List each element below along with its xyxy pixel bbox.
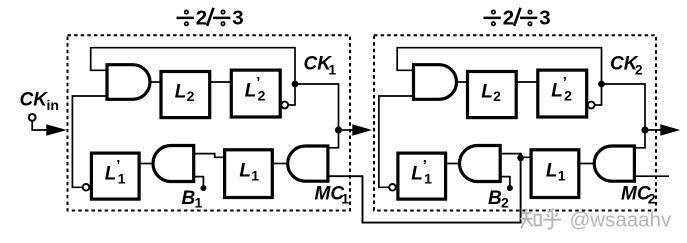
- latch L1' (cell 1): [91, 153, 139, 199]
- svg-text:1: 1: [195, 195, 203, 211]
- wire node CK1 to output junction: [295, 84, 339, 130]
- junction dot on L1 output node (cell 2): [517, 154, 524, 161]
- label CK2: [610, 53, 643, 77]
- latch L2' (cell 1): [231, 70, 280, 117]
- AND gate G2a (top, cell 2): [414, 65, 457, 100]
- svg-text:1: 1: [118, 171, 126, 187]
- wire clock rail (cell 2): [379, 96, 414, 187]
- svg-text:2: 2: [564, 88, 572, 104]
- divider cell 2 dashed border: [374, 35, 656, 210]
- latch L2 (cell 2): [468, 72, 517, 118]
- label L1 (cell 2): [546, 161, 566, 184]
- AND gate G2b (bottom middle, cell 2): [460, 146, 501, 182]
- label divide-by-2/divide-by-3 (cell 2): [484, 7, 551, 30]
- latch L1' (cell 2): [398, 153, 446, 199]
- svg-text:L: L: [411, 164, 423, 185]
- latch L2 (cell 1): [161, 72, 210, 118]
- AND gate G1c (bottom right, cell 1): [288, 146, 328, 181]
- svg-text:1: 1: [328, 62, 336, 78]
- arrowhead cell 1 output into cell 2: [352, 124, 372, 135]
- label L2 (cell 2): [481, 81, 501, 104]
- wire clock rail (cell 1): [72, 96, 107, 187]
- inverted output bubble of L2' (cell 2): [588, 102, 595, 109]
- svg-text:2: 2: [258, 88, 266, 104]
- wire L1' to gate G2b (cell 2): [446, 163, 460, 165]
- label L1' (cell 2): [411, 157, 432, 187]
- svg-text:1: 1: [251, 168, 259, 184]
- svg-text:L: L: [551, 81, 563, 102]
- wire feedback CK2 to AND gate (cell 2): [397, 48, 601, 84]
- wire L1 to gate G1c (cell 1): [272, 163, 287, 165]
- output junction dot (cell 1): [335, 126, 342, 133]
- divider cell 1 dashed border: [68, 35, 351, 210]
- label L1 (cell 1): [239, 161, 259, 184]
- svg-text:MC: MC: [621, 184, 651, 205]
- svg-text:MC: MC: [315, 184, 345, 205]
- watermark zhihu @wsaaahv: [520, 209, 672, 232]
- inverted clock bubble of L1' (cell 1): [83, 184, 90, 191]
- terminal B2 dot: [507, 185, 513, 191]
- wire node CK2 to output junction: [602, 84, 646, 130]
- svg-text:L: L: [546, 161, 558, 182]
- wire output of cell 1 to cell 2: [339, 129, 354, 131]
- label L1' (cell 1): [105, 157, 126, 187]
- wire L2' bubble to node CK1: [288, 84, 295, 105]
- svg-text:CK: CK: [20, 90, 49, 111]
- svg-text:1: 1: [424, 171, 432, 187]
- AND gate G1a (top, cell 1): [107, 65, 150, 100]
- svg-text:2: 2: [187, 88, 195, 104]
- svg-text:L: L: [245, 81, 257, 102]
- inverted clock bubble of L1' (cell 2): [389, 184, 396, 191]
- svg-text:3: 3: [232, 7, 243, 30]
- svg-text:2: 2: [493, 88, 501, 104]
- latch L2' (cell 2): [538, 70, 587, 117]
- svg-text:2: 2: [648, 191, 656, 207]
- svg-text:1: 1: [341, 191, 349, 207]
- svg-text:B: B: [182, 188, 196, 209]
- svg-text:3: 3: [539, 7, 550, 30]
- label L2' (cell 1): [245, 74, 266, 104]
- wire G2b input from L1 (cell 2): [500, 154, 531, 158]
- svg-text:1: 1: [558, 168, 566, 184]
- inverted output bubble of L2' (cell 1): [281, 102, 288, 109]
- label MC2: [621, 184, 656, 207]
- arrowhead cell 2 output: [660, 124, 680, 135]
- svg-text:B: B: [488, 188, 502, 209]
- label MC1: [315, 184, 350, 207]
- label L2 (cell 1): [175, 81, 195, 104]
- latch L1 (cell 1): [225, 150, 273, 198]
- wire G2b input from B2: [500, 177, 510, 186]
- AND gate G1b (bottom middle, cell 1): [153, 146, 194, 182]
- wire CKin terminal to arrow: [32, 121, 47, 130]
- label L2' (cell 2): [551, 74, 572, 104]
- node CK1 junction dot: [292, 81, 299, 88]
- svg-text:L: L: [105, 164, 117, 185]
- svg-text:L: L: [481, 81, 493, 102]
- wire G1c input from output junction (cell 1): [328, 130, 339, 148]
- wire output of cell 2: [645, 129, 667, 131]
- wire G1b input from L1 (cell 1): [194, 154, 225, 158]
- label CKin: [20, 90, 59, 114]
- wire L1' to gate G1b (cell 1): [139, 163, 153, 165]
- wire G2c input from output junction (cell 2): [634, 130, 645, 148]
- node CK2 junction dot: [598, 81, 605, 88]
- latch L1 (cell 2): [531, 150, 579, 198]
- output junction dot (cell 2): [641, 126, 648, 133]
- svg-text:@wsaaahv: @wsaaahv: [570, 209, 672, 232]
- wire MC1 from cell 2 L1 node to cell 1 gate G1c: [328, 158, 521, 223]
- svg-text:2: 2: [501, 195, 509, 211]
- svg-text:2: 2: [503, 7, 514, 30]
- AND gate G2c (bottom right, cell 2): [594, 146, 634, 181]
- label CK1: [304, 53, 337, 77]
- label B2: [488, 188, 509, 211]
- label B1: [182, 188, 203, 211]
- wire L2 to L2' (cell 2): [516, 81, 538, 83]
- wire L2 to L2' (cell 1): [210, 81, 232, 83]
- input terminal CKin (open circle): [29, 114, 36, 121]
- wire L1 to gate G2c (cell 2): [579, 163, 594, 165]
- wire MC2 input stub (cell 2): [634, 175, 669, 177]
- svg-text:2: 2: [635, 62, 643, 78]
- svg-text:in: in: [47, 97, 59, 113]
- wire G1b input from B1: [194, 177, 204, 186]
- svg-text:2: 2: [196, 7, 207, 30]
- wire G1a output to L2 (cell 1): [150, 81, 161, 83]
- arrowhead CKin into cell 1: [46, 124, 67, 135]
- svg-text:L: L: [175, 81, 187, 102]
- wire L2' bubble to node CK2: [595, 84, 602, 105]
- wire G2a output to L2 (cell 2): [457, 81, 468, 83]
- terminal B1 dot: [200, 185, 206, 191]
- label divide-by-2/divide-by-3 (cell 1): [177, 7, 244, 30]
- wire feedback CK1 to AND gate (cell 1): [91, 48, 295, 84]
- svg-text:L: L: [239, 161, 251, 182]
